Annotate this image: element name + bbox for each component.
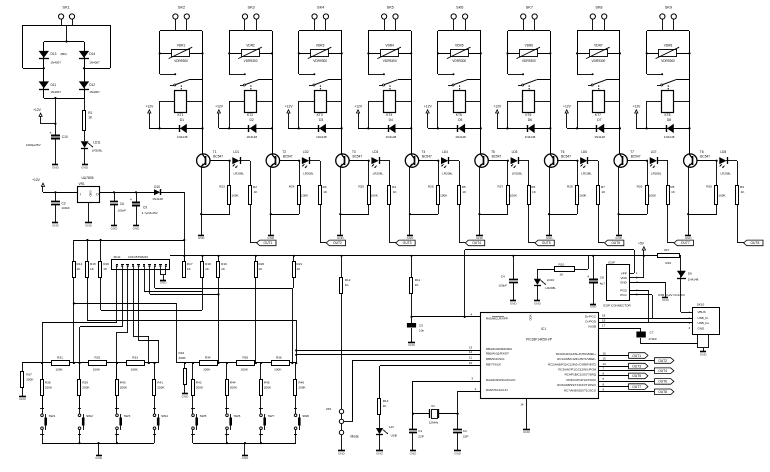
svg-text:USB_D-: USB_D- [698,316,709,320]
svg-text:19: 19 [602,318,606,322]
svg-text:RC1/AN5/C12IN-/INT1/VREF-: RC1/AN5/C12IN-/INT1/VREF- [557,357,596,361]
svg-text:200K: 200K [196,386,204,390]
svg-text:BC547: BC547 [492,155,502,159]
svg-text:OUT2: OUT2 [333,241,342,245]
svg-text:LD11: LD11 [93,141,101,145]
svg-text:1N4148: 1N4148 [594,135,605,139]
svg-text:O: O [96,193,99,197]
svg-text:VDR9300: VDR9300 [661,59,675,63]
svg-text:GND: GND [52,223,60,227]
svg-text:ICSP CONNECTOR: ICSP CONNECTOR [603,303,632,307]
svg-text:VDR4: VDR4 [385,43,394,47]
svg-text:17: 17 [602,323,606,327]
svg-text:GND: GND [337,236,345,240]
svg-text:RC7/AN9/SDO/T1OSCO: RC7/AN9/SDO/T1OSCO [564,388,597,392]
svg-text:PIC18F14K50-I/P: PIC18F14K50-I/P [526,338,553,342]
svg-text:VDR7: VDR7 [594,43,603,47]
svg-text:100K: 100K [440,193,448,197]
svg-text:LR208L: LR208L [651,172,662,176]
svg-text:D14: D14 [89,52,95,56]
svg-text:1N4148: 1N4148 [152,197,163,201]
svg-text:D8: D8 [667,118,671,122]
svg-text:D9: D9 [688,271,692,275]
svg-text:LR208L: LR208L [234,172,245,176]
svg-text:D2: D2 [249,118,253,122]
svg-text:LD7: LD7 [651,150,657,154]
svg-text:VDR2: VDR2 [246,43,255,47]
svg-text:VDR3: VDR3 [316,43,325,47]
svg-text:100nF: 100nF [499,283,508,287]
svg-text:4μ7: 4μ7 [600,282,606,286]
svg-text:OUT4: OUT4 [472,241,481,245]
svg-text:C4: C4 [501,275,505,279]
svg-text:470nF: 470nF [649,337,658,341]
svg-text:GND: GND [523,430,531,434]
svg-text:22P: 22P [418,434,424,438]
svg-text:VDR9300: VDR9300 [313,59,327,63]
svg-text:RC5/CCP1/P1A/T0CKI: RC5/CCP1/P1A/T0CKI [566,378,596,382]
svg-text:GND: GND [95,456,103,460]
svg-text:VPP: VPP [621,271,627,275]
svg-text:RA4/AN3/OSC2/CLKO: RA4/AN3/OSC2/CLKO [486,378,516,382]
svg-text:R15: R15 [90,262,96,266]
svg-text:SK3: SK3 [247,6,254,10]
svg-text:D11: D11 [51,83,57,87]
svg-text:200K: 200K [179,356,187,360]
svg-text:SW2: SW2 [86,414,93,418]
svg-text:1N4007: 1N4007 [89,90,100,94]
svg-text:1N4007: 1N4007 [51,61,62,65]
svg-text:SK8: SK8 [595,6,602,10]
svg-text:1N4148: 1N4148 [688,278,699,282]
svg-text:LR208L: LR208L [303,172,314,176]
svg-text:1N4148: 1N4148 [247,135,258,139]
svg-text:100K: 100K [274,368,282,372]
svg-text:R44: R44 [230,380,236,384]
svg-text:RB4/AN10/SDI/SDA: RB4/AN10/SDI/SDA [486,347,512,351]
svg-text:C8: C8 [600,275,604,279]
svg-text:USB C12V CC12KV: USB C12V CC12KV [658,293,685,297]
svg-text:OUT7: OUT7 [681,241,690,245]
svg-text:RB5/AN11/RX/DT: RB5/AN11/RX/DT [486,351,509,355]
svg-text:R23: R23 [219,185,225,189]
svg-text:200K: 200K [230,386,238,390]
svg-text:R12: R12 [345,278,351,282]
svg-text:200K: 200K [26,378,34,382]
svg-text:R26: R26 [428,185,434,189]
svg-text:RA5/OSC1/CLKI: RA5/OSC1/CLKI [486,388,508,392]
svg-text:LD5: LD5 [512,150,518,154]
svg-text:GND: GND [685,236,693,240]
svg-text:100K: 100K [203,368,211,372]
svg-text:SK1: SK1 [62,6,69,10]
svg-text:100K: 100K [241,368,249,372]
svg-text:BC547: BC547 [631,155,641,159]
svg-text:SW3: SW3 [124,414,131,418]
svg-text:KT5: KT5 [456,113,462,117]
svg-text:VDR1: VDR1 [177,43,186,47]
svg-text:R40: R40 [120,380,126,384]
svg-text:1N4148: 1N4148 [177,135,188,139]
svg-text:D-/PGD: D-/PGD [586,320,597,324]
svg-text:R7: R7 [601,185,605,189]
svg-text:200K: 200K [120,386,128,390]
svg-text:100K: 100K [130,368,138,372]
svg-text:GND: GND [590,305,598,309]
svg-text:200K: 200K [298,386,306,390]
svg-text:R18: R18 [205,262,211,266]
svg-text:1N4007: 1N4007 [51,90,62,94]
svg-text:4K7: 4K7 [664,248,670,252]
svg-text:R27: R27 [497,185,503,189]
svg-text:GND: GND [407,236,415,240]
svg-text:KT2: KT2 [247,113,253,117]
svg-text:OUT6: OUT6 [658,380,667,384]
svg-text:GND: GND [198,236,206,240]
svg-text:T6: T6 [561,150,565,154]
svg-text:GND: GND [620,280,628,284]
svg-text:T8: T8 [700,150,704,154]
svg-text:R21: R21 [297,262,303,266]
svg-text:+12V: +12V [146,105,155,109]
svg-text:GND: GND [52,165,60,169]
svg-text:GND: GND [338,451,346,455]
svg-text:KT8: KT8 [664,113,670,117]
svg-text:LD8: LD8 [720,150,726,154]
svg-text:VDD: VDD [529,315,533,321]
svg-text:R41: R41 [157,380,163,384]
svg-text:+12V: +12V [285,105,294,109]
svg-text:RC3/AN7/P1C/C12IN3-/PGM: RC3/AN7/P1C/C12IN3-/PGM [558,367,596,371]
svg-text:RC2/AN6/P1D/C12IN2-/CVREF/INT2: RC2/AN6/P1D/C12IN2-/CVREF/INT2 [548,363,596,367]
svg-text:SK9: SK9 [665,6,672,10]
svg-text:BC547: BC547 [283,155,293,159]
svg-text:1N4007: 1N4007 [89,61,100,65]
svg-text:+12V: +12V [493,105,502,109]
svg-text:C10: C10 [62,135,68,139]
svg-text:R13: R13 [383,399,389,403]
svg-text:10n: 10n [419,328,424,332]
svg-text:OUT8: OUT8 [750,241,759,245]
svg-text:R1: R1 [88,111,92,115]
svg-text:GND: GND [89,191,93,197]
svg-text:VDR9300: VDR9300 [592,59,606,63]
svg-text:4.7μ/16-25V: 4.7μ/16-25V [142,211,158,215]
svg-text:CON BTWM10: CON BTWM10 [128,255,148,259]
svg-text:1000μ/25V: 1000μ/25V [26,143,41,147]
svg-text:OUT3: OUT3 [632,364,641,368]
svg-text:D13: D13 [51,52,57,56]
svg-text:SW8: SW8 [302,414,309,418]
svg-text:R14: R14 [77,262,83,266]
svg-text:KT4: KT4 [386,113,392,117]
svg-text:T4: T4 [422,150,426,154]
svg-text:R36: R36 [276,355,282,359]
svg-text:LR208L: LR208L [92,148,103,152]
svg-text:RC0/AN4/C12IN+/INT0/VREF+: RC0/AN4/C12IN+/INT0/VREF+ [556,352,596,356]
svg-text:R43: R43 [196,380,202,384]
svg-text:D3: D3 [319,118,323,122]
svg-text:RC4/P1B/C12OUT/SRQ: RC4/P1B/C12OUT/SRQ [565,373,597,377]
svg-text:VDR9300: VDR9300 [244,59,258,63]
svg-text:RC6/AN8/SS/T13CKI/T1OSCI: RC6/AN8/SS/T13CKI/T1OSCI [557,383,596,387]
svg-text:VDR5: VDR5 [455,43,464,47]
svg-text:GND: GND [662,298,670,302]
svg-text:R35: R35 [242,355,248,359]
svg-text:100K: 100K [579,193,587,197]
svg-text:SK11: SK11 [114,255,121,259]
svg-text:GND: GND [546,236,554,240]
svg-text:+12V: +12V [424,105,433,109]
svg-text:R4: R4 [392,185,396,189]
svg-text:R19: R19 [221,262,227,266]
svg-text:R28: R28 [567,185,573,189]
svg-text:OUT4: OUT4 [658,369,667,373]
svg-text:C9: C9 [143,206,147,210]
svg-text:LD3: LD3 [372,150,378,154]
svg-text:18: 18 [602,314,606,318]
svg-text:C6: C6 [120,202,124,206]
svg-text:R34: R34 [205,355,211,359]
svg-text:ZP1: ZP1 [326,407,332,411]
svg-text:OUT3: OUT3 [403,241,412,245]
svg-text:GND: GND [454,451,462,455]
svg-text:GND: GND [408,343,416,347]
svg-text:Mode: Mode [351,435,359,439]
svg-text:+12V: +12V [354,105,363,109]
svg-text:100nF: 100nF [118,208,127,212]
svg-text:PGD: PGD [620,288,627,292]
svg-text:D6: D6 [528,118,532,122]
svg-text:SK10: SK10 [697,303,705,307]
svg-text:KT6: KT6 [525,113,531,117]
svg-text:12V: 12V [389,425,394,429]
svg-text:D5: D5 [458,118,462,122]
svg-text:SK7: SK7 [526,6,533,10]
svg-text:GND: GND [19,397,27,401]
svg-text:VDR8: VDR8 [664,43,673,47]
svg-text:GND: GND [111,226,119,230]
svg-text:LR208L: LR208L [373,172,384,176]
svg-text:VUSB: VUSB [588,325,596,329]
svg-text:LR208L: LR208L [442,172,453,176]
svg-text:OUT6: OUT6 [611,241,620,245]
svg-text:OUT8: OUT8 [658,390,667,394]
svg-text:GND: GND [410,451,418,455]
svg-text:C2: C2 [463,429,467,433]
svg-text:BC547: BC547 [561,155,571,159]
svg-text:R39: R39 [82,380,88,384]
svg-text:R31: R31 [57,355,63,359]
svg-text:SW1: SW1 [49,414,56,418]
svg-text:200K: 200K [264,386,272,390]
svg-text:16: 16 [603,351,607,355]
svg-text:OUT1: OUT1 [632,354,641,358]
svg-text:VBUS: VBUS [698,310,706,314]
svg-text:GND: GND [534,302,542,306]
svg-text:GND: GND [376,451,384,455]
svg-text:100K: 100K [301,193,309,197]
svg-text:GND: GND [698,327,706,331]
svg-text:R33: R33 [132,355,138,359]
svg-text:PGC: PGC [620,293,627,297]
svg-text:15: 15 [603,356,607,360]
svg-text:C3: C3 [62,201,66,205]
svg-text:R25: R25 [358,185,364,189]
svg-text:+12V: +12V [633,105,642,109]
svg-text:R3: R3 [323,185,327,189]
svg-text:D1: D1 [180,118,184,122]
svg-text:BC547: BC547 [700,155,710,159]
svg-text:R22: R22 [665,261,671,265]
svg-text:D10: D10 [154,185,160,189]
svg-text:D7: D7 [597,118,601,122]
svg-text:22P: 22P [463,434,469,438]
svg-text:100K: 100K [55,368,63,372]
svg-text:OUT7: OUT7 [632,385,641,389]
svg-text:12: 12 [469,350,473,354]
svg-text:VDR6: VDR6 [525,43,534,47]
svg-text:SW6: SW6 [234,414,241,418]
svg-text:SW7: SW7 [268,414,275,418]
svg-text:IC1: IC1 [541,327,546,331]
svg-text:100K: 100K [231,193,239,197]
svg-text:OUT5: OUT5 [542,241,551,245]
svg-text:D4: D4 [389,118,393,122]
svg-text:14: 14 [520,403,524,407]
svg-text:R9: R9 [740,185,744,189]
svg-text:BC547: BC547 [352,155,362,159]
svg-text:BC547: BC547 [213,155,223,159]
svg-text:USB_D+: USB_D+ [698,321,710,325]
svg-text:T5: T5 [491,150,495,154]
svg-text:+12V: +12V [33,108,42,112]
svg-text:R8: R8 [670,185,674,189]
svg-text:VDR9300: VDR9300 [452,59,466,63]
svg-text:R29: R29 [637,185,643,189]
svg-text:X1: X1 [431,404,435,408]
svg-text:100nF: 100nF [62,206,71,210]
svg-text:RA5/MCLR/VPP: RA5/MCLR/VPP [486,317,508,321]
svg-text:R11: R11 [415,278,421,282]
svg-text:GND: GND [160,281,168,285]
svg-text:RB7/TX/CK: RB7/TX/CK [486,362,501,366]
svg-text:RB6/SCK/SCL: RB6/SCK/SCL [486,357,505,361]
svg-text:1N4148: 1N4148 [316,135,327,139]
svg-text:R17: R17 [187,262,193,266]
svg-text:200K: 200K [157,386,165,390]
svg-text:1N4148: 1N4148 [455,135,466,139]
svg-text:R30: R30 [706,185,712,189]
svg-text:GND: GND [700,352,708,356]
svg-text:KT1: KT1 [177,113,183,117]
svg-text:13: 13 [469,346,473,350]
svg-text:UA7805: UA7805 [82,176,94,180]
svg-text:KT7: KT7 [595,113,601,117]
svg-text:R38: R38 [45,380,51,384]
svg-text:D12: D12 [89,83,95,87]
svg-text:LR208L: LR208L [545,286,556,290]
svg-text:1N4148: 1N4148 [664,135,675,139]
svg-text:GND: GND [85,223,93,227]
svg-text:ICSP: ICSP [608,260,615,264]
svg-text:SK6: SK6 [456,6,463,10]
svg-text:100K: 100K [93,368,101,372]
svg-text:VR1: VR1 [79,182,85,186]
svg-text:T7: T7 [630,150,634,154]
svg-text:GND: GND [242,456,250,460]
svg-text:R5: R5 [462,185,466,189]
svg-text:(BR): (BR) [61,52,67,56]
svg-text:100K: 100K [510,193,518,197]
svg-text:LR208L: LR208L [720,172,731,176]
svg-text:BC547: BC547 [422,155,432,159]
svg-text:VDR9300: VDR9300 [174,59,188,63]
svg-text:GND: GND [81,165,89,169]
svg-text:R46: R46 [298,380,304,384]
svg-text:GND: GND [510,302,518,306]
svg-text:SK5: SK5 [387,6,394,10]
svg-text:1N4148: 1N4148 [386,135,397,139]
svg-text:LD4: LD4 [442,150,448,154]
svg-text:LR208L: LR208L [512,172,523,176]
svg-text:C5: C5 [419,323,423,327]
svg-text:R45: R45 [264,380,270,384]
svg-text:I: I [80,193,81,197]
svg-text:200K: 200K [82,386,90,390]
svg-text:+12V: +12V [215,105,224,109]
svg-text:R24: R24 [289,185,295,189]
svg-text:SK4: SK4 [317,6,324,10]
svg-text:LD6: LD6 [581,150,587,154]
svg-text:VDD: VDD [620,276,627,280]
svg-text:OUT5: OUT5 [632,374,641,378]
svg-text:LR208L: LR208L [581,172,592,176]
svg-text:T2: T2 [282,150,286,154]
svg-text:100K: 100K [649,193,657,197]
svg-text:SW5: SW5 [200,414,207,418]
svg-text:R32: R32 [95,355,101,359]
svg-text:10: 10 [469,361,473,365]
svg-text:SW4: SW4 [161,414,168,418]
svg-text:100K: 100K [371,193,379,197]
svg-text:R20: R20 [259,262,265,266]
svg-text:D+/PGC: D+/PGC [585,315,597,319]
svg-text:100K: 100K [718,193,726,197]
svg-text:OUT2: OUT2 [658,359,667,363]
svg-text:T1: T1 [213,150,217,154]
svg-text:14: 14 [603,362,607,366]
svg-text:T3: T3 [352,150,356,154]
svg-text:11: 11 [469,356,472,360]
svg-text:C1: C1 [418,429,422,433]
svg-text:LD1: LD1 [233,150,239,154]
svg-text:GND: GND [615,236,623,240]
svg-text:GND: GND [267,236,275,240]
svg-text:VDR9300: VDR9300 [522,59,536,63]
svg-text:1N4148: 1N4148 [525,135,536,139]
svg-text:R2: R2 [253,185,257,189]
svg-text:GND: GND [133,226,141,230]
svg-text:LD10: LD10 [547,278,555,282]
svg-text:GND: GND [182,394,190,398]
svg-text:C7: C7 [650,330,654,334]
svg-text:KT3: KT3 [317,113,323,117]
svg-text:R16: R16 [103,262,109,266]
svg-text:12MHz: 12MHz [429,420,439,424]
svg-text:SK2: SK2 [178,6,185,10]
svg-text:+12V: +12V [32,178,41,182]
